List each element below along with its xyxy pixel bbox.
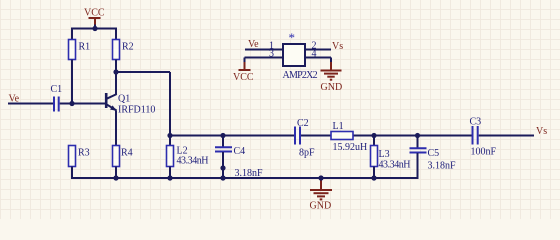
node junction GND ground rail [318, 175, 323, 180]
svg-text:8pF: 8pF [299, 148, 315, 159]
pin 1 wire [245, 49, 283, 51]
svg-text:R4: R4 [121, 148, 133, 159]
wire R3 bottom to ground rail [72, 167, 419, 180]
node junction C4 pin [220, 165, 225, 170]
inductor L3 [371, 146, 378, 167]
node junction VCC rail [92, 26, 97, 31]
svg-text:*: * [289, 30, 296, 45]
wire R1 bottom to input node [71, 60, 73, 105]
node junction mid rail L3 [371, 133, 376, 138]
wire collector up [115, 72, 117, 94]
svg-text:GND: GND [321, 82, 343, 93]
svg-text:VCC: VCC [233, 72, 254, 83]
wire C5 bottom corner [417, 153, 419, 178]
node junction L2 ground rail [167, 175, 172, 180]
wire top rail [71, 28, 117, 30]
pin 4 wire [305, 58, 331, 64]
wire mid rail left segment [170, 135, 295, 137]
svg-text:Vs: Vs [536, 126, 547, 137]
power port GND (amp) [321, 62, 343, 93]
wire C1 to base [60, 103, 106, 105]
capacitor C1 [54, 97, 59, 112]
capacitor C5 [410, 148, 427, 152]
svg-text:100nF: 100nF [471, 147, 497, 158]
svg-text:C3: C3 [470, 117, 482, 128]
wire branch down to mid rail [169, 72, 171, 136]
wire L3 bottom [373, 167, 375, 179]
svg-text:15.92uH: 15.92uH [333, 142, 368, 153]
svg-text:C2: C2 [297, 118, 309, 129]
pin 3 wire [245, 58, 284, 64]
wire collector branch right [116, 71, 170, 73]
node junction C4 ground rail [220, 175, 225, 180]
wire top rail to R1 [71, 29, 73, 41]
resistor R2 [113, 40, 120, 60]
wire input to C1 [8, 103, 54, 105]
power port VCC (amp) [233, 62, 254, 83]
node junction R4 ground rail [113, 175, 118, 180]
svg-text:3: 3 [269, 49, 274, 60]
svg-text:3.18nF: 3.18nF [235, 168, 264, 179]
resistor R4 [113, 146, 120, 167]
svg-text:VCC: VCC [84, 8, 105, 19]
svg-text:4: 4 [312, 49, 317, 60]
svg-text:43.34nH: 43.34nH [177, 156, 209, 167]
capacitor C3 [473, 126, 478, 145]
node junction mid rail C5 [415, 133, 420, 138]
op-amp block U1 AMP2X2 [283, 44, 305, 66]
power port GND (bottom) [310, 179, 333, 212]
wire emitter down to R4 [115, 111, 117, 147]
svg-text:IRFD110: IRFD110 [118, 105, 155, 116]
wire top rail to R2 [115, 29, 117, 41]
wire C4 bottom [222, 152, 224, 178]
svg-text:C5: C5 [428, 148, 440, 159]
wire R2 bottom to collector node [115, 60, 117, 74]
pin 2 wire [305, 49, 331, 51]
capacitor C2 [295, 127, 300, 145]
node junction mid rail L2 [167, 133, 172, 138]
wire C5 top [417, 136, 419, 149]
svg-text:L3: L3 [379, 149, 390, 160]
wire VCC stem to top rail [94, 25, 96, 30]
wire R4 bottom [115, 167, 117, 179]
wire C3 to output [479, 135, 534, 137]
wire L3 top [373, 136, 375, 147]
wire C4 top [222, 136, 224, 148]
wire mid rail right of C2 [301, 135, 472, 137]
inductor L1 [331, 132, 353, 140]
power port VCC (top) [84, 8, 105, 26]
svg-text:L1: L1 [333, 121, 344, 132]
svg-text:Vs: Vs [332, 41, 343, 52]
svg-text:R1: R1 [79, 42, 91, 53]
svg-text:3.18nF: 3.18nF [428, 161, 457, 172]
svg-text:R2: R2 [122, 42, 134, 53]
node junction L3 ground rail [371, 175, 376, 180]
node junction collector [113, 69, 118, 74]
node junction input/R1/R3 [69, 101, 74, 106]
wire L2 top [169, 136, 171, 147]
svg-text:R3: R3 [78, 148, 90, 159]
node junction mid rail C4 [220, 133, 225, 138]
capacitor C4 [215, 147, 232, 151]
svg-text:AMP2X2: AMP2X2 [283, 70, 318, 81]
svg-text:Q1: Q1 [118, 94, 130, 105]
wire L2 bottom [169, 167, 171, 179]
transistor Q1 [106, 93, 117, 111]
svg-text:C1: C1 [51, 84, 63, 95]
resistor R1 [69, 40, 76, 60]
svg-text:C4: C4 [234, 146, 246, 157]
svg-text:GND: GND [310, 201, 332, 212]
inductor L2 [167, 146, 174, 167]
resistor R3 [69, 146, 76, 167]
svg-text:Ve: Ve [248, 39, 259, 50]
svg-text:43.34nH: 43.34nH [379, 160, 411, 171]
